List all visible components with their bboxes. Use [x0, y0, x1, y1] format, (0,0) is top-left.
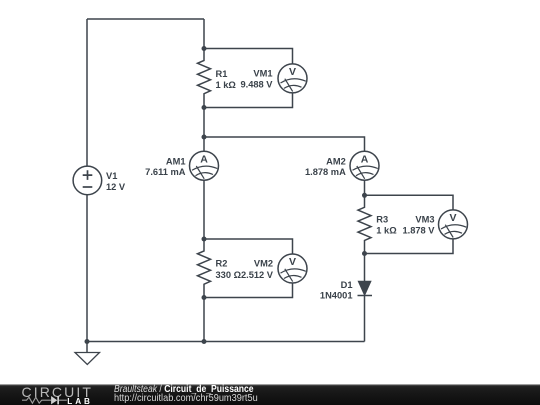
svg-text:LAB: LAB — [67, 397, 93, 405]
wire left rail upper — [86, 19, 88, 166]
node junction R1 bottom — [202, 105, 207, 110]
node junction R2 bottom — [202, 295, 207, 300]
svg-text:V: V — [289, 256, 296, 268]
footer credit line 2 — [114, 394, 258, 404]
node junction R3 bottom — [362, 251, 367, 256]
voltmeter VM3 — [439, 210, 468, 239]
wire middle rail R1 to AM1 — [203, 108, 205, 152]
svg-text:R2: R2 — [216, 259, 228, 269]
wire VM2 loop — [204, 239, 293, 298]
wire middle rail top — [203, 19, 205, 49]
svg-text:V: V — [289, 66, 296, 78]
svg-text:12 V: 12 V — [106, 182, 126, 192]
node junction R1 top — [202, 46, 207, 51]
svg-text:R3: R3 — [376, 215, 388, 225]
ammeter AM1 — [190, 151, 219, 180]
svg-text:V1: V1 — [106, 171, 117, 181]
svg-text:R1: R1 — [216, 69, 228, 79]
voltmeter VM2 — [278, 254, 307, 283]
resistor R3 — [358, 195, 371, 253]
wire middle rail AM1 to R2 — [203, 180, 205, 239]
svg-text:1N4001: 1N4001 — [320, 291, 353, 301]
svg-text:A: A — [361, 153, 369, 165]
ammeter AM2 — [350, 151, 379, 180]
wire left rail lower — [86, 195, 88, 342]
svg-text:VM3: VM3 — [415, 215, 434, 225]
svg-text:V: V — [449, 212, 456, 224]
wire bottom rail — [87, 341, 365, 343]
diode D1 — [358, 281, 373, 295]
footer credit line 1 — [114, 385, 254, 395]
voltmeter VM1 — [278, 64, 307, 93]
wire R3 to D1 — [364, 254, 366, 282]
svg-text:VM2: VM2 — [254, 259, 273, 269]
wire top rail — [87, 18, 204, 20]
svg-text:330 Ω: 330 Ω — [216, 270, 242, 280]
svg-text:1.878 V: 1.878 V — [402, 226, 435, 236]
svg-text:AM2: AM2 — [326, 157, 346, 167]
svg-text:A: A — [200, 153, 208, 165]
logo CircuitLab — [0, 383, 110, 405]
svg-text:9.488 V: 9.488 V — [240, 80, 273, 90]
svg-text:VM1: VM1 — [253, 69, 272, 79]
node junction R2 top — [202, 237, 207, 242]
svg-text:1.878 mA: 1.878 mA — [305, 167, 346, 177]
svg-text:1 kΩ: 1 kΩ — [216, 80, 237, 90]
svg-text:D1: D1 — [341, 280, 353, 290]
svg-text:7.611 mA: 7.611 mA — [145, 167, 186, 177]
wire middle rail R2 to bottom — [203, 298, 205, 342]
ground — [75, 342, 100, 365]
voltage source V1 — [73, 166, 102, 195]
footer bar — [0, 384, 540, 405]
wire D1 to bottom rail — [364, 296, 366, 342]
node junction R3 top — [362, 193, 367, 198]
wire VM3 loop — [365, 195, 454, 253]
node junction bottom left — [85, 339, 90, 344]
wire AM1 junction to AM2 branch — [204, 137, 365, 151]
svg-text:AM1: AM1 — [166, 157, 186, 167]
resistor R1 — [198, 49, 211, 108]
node junction AM1 top — [202, 135, 207, 140]
svg-text:1 kΩ: 1 kΩ — [376, 226, 397, 236]
node junction bottom mid — [202, 339, 207, 344]
wire AM2 bottom lead — [364, 180, 366, 195]
wire VM1 loop — [204, 49, 293, 108]
svg-text:2.512 V: 2.512 V — [241, 270, 274, 280]
resistor R2 — [198, 239, 211, 298]
